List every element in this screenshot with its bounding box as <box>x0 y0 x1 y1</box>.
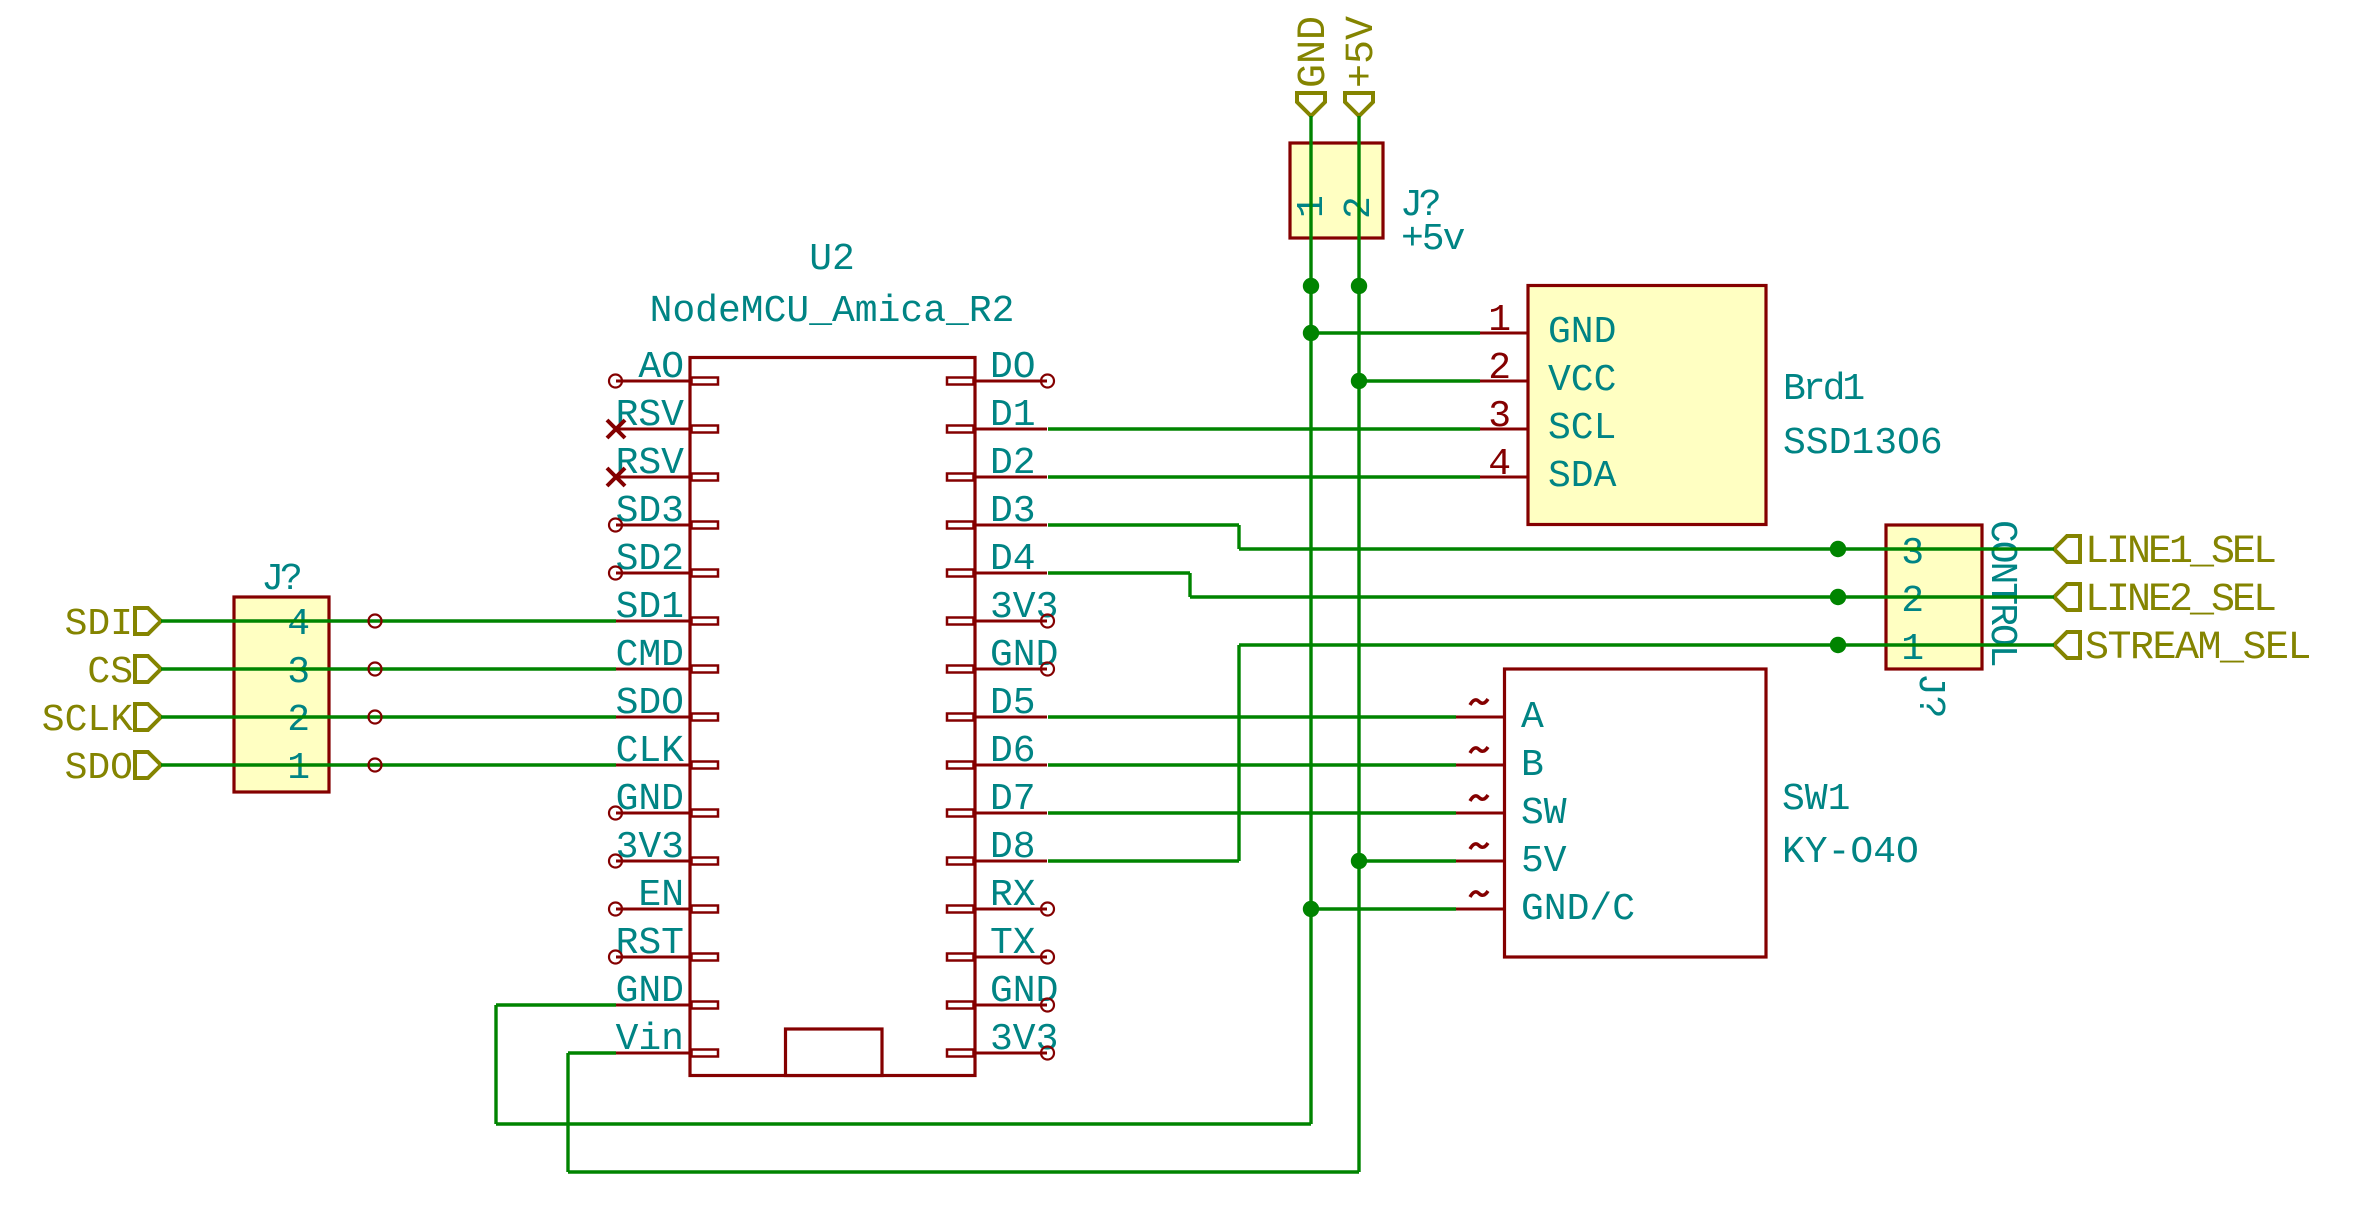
svg-text:RSV: RSV <box>616 394 685 437</box>
wire LINE1_SEL net <box>1239 547 2054 550</box>
J2 pin 4 endpoint ring <box>369 615 382 628</box>
wire U2.D2 to Brd1.SDA <box>1048 475 1480 478</box>
connector J3 (CONTROL) body <box>1886 525 1982 669</box>
wire U2.D1 to Brd1.SCL <box>1048 427 1480 430</box>
svg-text:J?: J? <box>1908 673 1951 719</box>
junction LINE2_SEL / J3 pin2 <box>1830 589 1846 605</box>
svg-text:D3: D3 <box>990 490 1036 533</box>
wire +5V bottom horizontal <box>568 1170 1359 1173</box>
Brd1 pin 4 SDA (y=477) <box>1480 476 1528 479</box>
svg-text:D4: D4 <box>990 538 1036 581</box>
U2 left pin CMD (row y=669) <box>616 668 691 671</box>
svg-text:J?: J? <box>261 558 300 601</box>
svg-text:LINE1_SEL: LINE1_SEL <box>2085 530 2275 575</box>
svg-text:AO: AO <box>638 346 684 389</box>
junction +5V to Brd1 <box>1351 373 1367 389</box>
rotary encoder SW1 KY-040 body <box>1505 669 1767 957</box>
wire SDI to U2.SD1 <box>161 619 616 622</box>
U2 left pin EN (row y=909) <box>616 908 691 911</box>
hierarchical label +5V (top) <box>1345 93 1373 116</box>
svg-text:SDA: SDA <box>1548 455 1617 498</box>
wire SDO to U2.CLK <box>161 763 616 766</box>
svg-text:D7: D7 <box>990 778 1036 821</box>
svg-text:RX: RX <box>990 874 1036 917</box>
svg-text:D6: D6 <box>990 730 1036 773</box>
svg-text:D5: D5 <box>990 682 1036 725</box>
U2 left pin SD1 (row y=621) <box>616 620 691 623</box>
junction GND to SW1.GND/C <box>1303 901 1319 917</box>
junction GND to Brd1 <box>1303 325 1319 341</box>
U2 left pin RSV (row y=477) <box>616 476 691 479</box>
junction LINE1_SEL / J3 pin3 <box>1830 541 1846 557</box>
svg-text:GND: GND <box>1548 311 1616 354</box>
J2 pin 1 endpoint ring <box>369 759 382 772</box>
svg-text:5V: 5V <box>1521 840 1567 883</box>
hierarchical label SDO <box>135 752 161 778</box>
hierarchical label CS <box>135 656 161 682</box>
U2 left pin RSV (row y=429) <box>616 428 691 431</box>
wire U2.D7 to SW1.SW <box>1048 811 1456 814</box>
svg-text:TX: TX <box>990 922 1036 965</box>
svg-text:SW1: SW1 <box>1782 778 1850 821</box>
U2 left pin SD3 (row y=525) <box>616 524 691 527</box>
svg-text:+5V: +5V <box>1340 16 1385 88</box>
junction +5V to SW1.5V <box>1351 853 1367 869</box>
wire GND vertical from label to bottom <box>1309 116 1312 1124</box>
U2 left pin GND (row y=1005) <box>616 1004 691 1007</box>
U2 right pin D6 (row y=765) <box>974 764 1047 767</box>
svg-text:SCLK: SCLK <box>42 699 133 742</box>
svg-text:3: 3 <box>1488 395 1511 438</box>
wire LINE2_SEL net <box>1190 595 2054 598</box>
svg-text:NodeMCU_Amica_R2: NodeMCU_Amica_R2 <box>650 290 1015 333</box>
wire U2.D5 to SW1.A <box>1048 715 1456 718</box>
hierarchical label SDI <box>135 608 161 634</box>
SW1 pin B (y=765) <box>1456 764 1505 767</box>
svg-text:4: 4 <box>1488 443 1511 486</box>
junction J1 pin2 / +5V net <box>1351 278 1367 294</box>
SW1 pin SW (y=813) <box>1456 812 1505 815</box>
svg-text:3: 3 <box>287 651 310 694</box>
U2 left pin SD2 (row y=573) <box>616 572 691 575</box>
svg-text:A: A <box>1521 696 1544 739</box>
wire D4 jog down <box>1188 573 1191 597</box>
wire +5V vertical from label to bottom <box>1357 116 1360 1172</box>
svg-text:CMD: CMD <box>616 634 684 677</box>
U2 right pin GND (row y=669) <box>974 668 1047 671</box>
U2 right pin GND (row y=1005) <box>974 1004 1047 1007</box>
display Brd1 SSD1306 body <box>1528 286 1766 525</box>
svg-text:GND: GND <box>990 634 1058 677</box>
U2 left pin 3V3 (row y=861) <box>616 860 691 863</box>
wire CS to U2.CMD <box>161 667 616 670</box>
wire U2.D6 to SW1.B <box>1048 763 1456 766</box>
wire GND to SW1.GND/C <box>1311 907 1456 910</box>
U2 left pin GND (row y=813) <box>616 812 691 815</box>
svg-text:3V3: 3V3 <box>616 826 684 869</box>
wire STREAM_SEL net <box>1239 643 2054 646</box>
svg-text:CS: CS <box>87 651 133 694</box>
svg-text:D2: D2 <box>990 442 1036 485</box>
svg-text:RSV: RSV <box>616 442 685 485</box>
U2 right pin D2 (row y=477) <box>974 476 1047 479</box>
SW1 pin A (y=717) <box>1456 716 1505 719</box>
U2 bottom notch (USB connector) <box>786 1029 883 1076</box>
wire U2.D3 horizontal <box>1048 523 1239 526</box>
U2 right pin 3V3 (row y=621) <box>974 620 1047 623</box>
wire U2.Vin stub <box>568 1051 616 1054</box>
Brd1 pin 3 SCL (y=429) <box>1480 428 1528 431</box>
svg-text:SDO: SDO <box>65 747 133 790</box>
svg-text:LINE2_SEL: LINE2_SEL <box>2085 578 2275 623</box>
svg-text:DO: DO <box>990 346 1036 389</box>
svg-text:+5v: +5v <box>1401 218 1465 261</box>
svg-text:SD2: SD2 <box>616 538 684 581</box>
U2 left pin RST (row y=957) <box>616 956 691 959</box>
wire D8 vertical up <box>1237 645 1240 861</box>
svg-text:GND/C: GND/C <box>1521 888 1635 931</box>
svg-text:D1: D1 <box>990 394 1036 437</box>
wire +5V to Brd1.VCC <box>1359 379 1480 382</box>
U2 right pin D3 (row y=525) <box>974 524 1047 527</box>
Brd1 pin 2 VCC (y=381) <box>1480 380 1528 383</box>
svg-text:B: B <box>1521 744 1544 787</box>
wire GND left vertical <box>494 1005 497 1124</box>
wire U2.D8 horizontal <box>1048 859 1239 862</box>
wire GND to Brd1.GND <box>1311 331 1480 334</box>
wire SCLK to U2.SD0 <box>161 715 616 718</box>
junction STREAM_SEL / J3 pin1 <box>1830 637 1846 653</box>
svg-text:1: 1 <box>1488 299 1511 342</box>
svg-text:Brd1: Brd1 <box>1783 368 1863 411</box>
svg-text:SSD13O6: SSD13O6 <box>1783 422 1943 465</box>
svg-text:2: 2 <box>1488 347 1511 390</box>
wire Vin left vertical <box>566 1053 569 1172</box>
svg-text:1: 1 <box>1901 628 1924 671</box>
connector J2 (left, SPI) body <box>234 597 329 792</box>
svg-text:3V3: 3V3 <box>990 1018 1058 1061</box>
wire D3 jog down <box>1237 525 1240 549</box>
svg-text:SDI: SDI <box>65 603 133 646</box>
svg-text:SCL: SCL <box>1548 407 1616 450</box>
svg-text:U2: U2 <box>809 238 855 281</box>
hierarchical label LINE1_SEL <box>2054 536 2080 562</box>
svg-text:SDO: SDO <box>616 682 684 725</box>
svg-text:Vin: Vin <box>616 1018 684 1061</box>
wire U2.GND to GND net <box>496 1003 616 1006</box>
svg-text:GND: GND <box>1292 16 1337 88</box>
hierarchical label GND (top) <box>1297 93 1325 116</box>
hierarchical label SCLK <box>135 704 161 730</box>
SW1 pin GND/C (y=909) <box>1456 908 1505 911</box>
svg-text:GND: GND <box>990 970 1058 1013</box>
svg-text:4: 4 <box>287 603 310 646</box>
U2 right pin D0 (row y=381) <box>974 380 1047 383</box>
U2 right pin RX (row y=909) <box>974 908 1047 911</box>
svg-text:SD3: SD3 <box>616 490 684 533</box>
wire +5V to SW1.5V <box>1359 859 1456 862</box>
svg-text:1: 1 <box>287 747 310 790</box>
U2 right pin D5 (row y=717) <box>974 716 1047 719</box>
J2 pin 3 endpoint ring <box>369 663 382 676</box>
U2 right pin 3V3 (row y=1053) <box>974 1052 1047 1055</box>
svg-text:KY-O4O: KY-O4O <box>1782 831 1919 874</box>
svg-text:SD1: SD1 <box>616 586 684 629</box>
U2 left pin CLK (row y=765) <box>616 764 691 767</box>
svg-text:GND: GND <box>616 970 684 1013</box>
SW1 pin 5V (y=861) <box>1456 860 1505 863</box>
U2 left pin A0 (row y=381) <box>616 380 691 383</box>
U2 right pin D4 (row y=573) <box>974 572 1047 575</box>
U2 left pin SD0 (row y=717) <box>616 716 691 719</box>
hierarchical label STREAM_SEL <box>2054 632 2080 658</box>
U2 right pin D8 (row y=861) <box>974 860 1047 863</box>
U2 right pin D7 (row y=813) <box>974 812 1047 815</box>
svg-text:SW: SW <box>1521 792 1567 835</box>
svg-text:EN: EN <box>638 874 684 917</box>
svg-text:RST: RST <box>616 922 684 965</box>
svg-text:VCC: VCC <box>1548 359 1616 402</box>
hierarchical label LINE2_SEL <box>2054 584 2080 610</box>
svg-text:STREAM_SEL: STREAM_SEL <box>2085 626 2310 671</box>
svg-text:2: 2 <box>1901 580 1924 623</box>
svg-text:3V3: 3V3 <box>990 586 1058 629</box>
Brd1 pin 1 GND (y=333) <box>1480 332 1528 335</box>
J2 pin 2 endpoint ring <box>369 711 382 724</box>
svg-text:D8: D8 <box>990 826 1036 869</box>
svg-text:3: 3 <box>1901 532 1924 575</box>
svg-text:CLK: CLK <box>616 730 685 773</box>
U2 right pin TX (row y=957) <box>974 956 1047 959</box>
connector J1 (top, +5v) body <box>1290 143 1383 238</box>
junction J1 pin1 / GND net <box>1303 278 1319 294</box>
U2 left pin Vin (row y=1053) <box>616 1052 691 1055</box>
svg-text:2: 2 <box>287 699 310 742</box>
module U2 NodeMCU_Amica_R2 body <box>690 358 975 1076</box>
U2 right pin D1 (row y=429) <box>974 428 1047 431</box>
wire U2.D4 horizontal <box>1048 571 1190 574</box>
wire GND bottom horizontal <box>496 1122 1311 1125</box>
svg-text:GND: GND <box>616 778 684 821</box>
